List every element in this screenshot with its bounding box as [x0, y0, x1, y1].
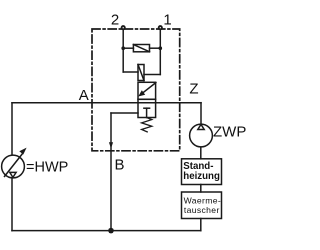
wire coil left lead from terminal 2 — [122, 28, 124, 72]
wire main A-Z horizontal line — [12, 102, 201, 104]
svg-text:2: 2 — [111, 12, 119, 29]
valve V1 lower square (blocked position with T) — [138, 99, 156, 117]
valve return spring — [142, 118, 152, 132]
pump HWP variable arrow — [5, 148, 27, 177]
wire coil bottom right segment — [144, 74, 160, 76]
svg-text:ZWP: ZWP — [213, 124, 246, 141]
svg-text:1: 1 — [163, 12, 171, 29]
svg-text:Z: Z — [189, 80, 198, 97]
wire Standheizung to Waermetauscher — [200, 185, 202, 193]
wire resistor branch left — [123, 47, 133, 49]
pump ZWP flow triangle — [198, 124, 204, 129]
wire Waermetauscher to bottom line — [200, 219, 202, 231]
svg-text:=HWP: =HWP — [26, 160, 68, 176]
svg-text:Waerme-: Waerme- — [184, 196, 221, 206]
terminal 1 — [159, 26, 162, 29]
pump HWP circle — [2, 155, 25, 178]
valve V1 upper square (flow position with arrow) — [138, 82, 156, 99]
wire B branch horizontal from valve — [111, 112, 138, 114]
junction node right of resistor — [159, 46, 163, 50]
wire resistor branch right — [150, 47, 161, 49]
junction node left of resistor — [121, 46, 125, 50]
pump ZWP circle — [190, 124, 213, 147]
resistor R (box with diagonal) — [133, 45, 149, 52]
svg-text:heizung: heizung — [183, 171, 220, 182]
wire Z vertical down to ZWP pump — [200, 103, 202, 125]
svg-text:A: A — [79, 87, 89, 104]
svg-text:tauscher: tauscher — [184, 205, 220, 215]
enclosure dash-dot boundary box — [92, 29, 180, 151]
terminal 2 — [122, 26, 125, 29]
wire coil bottom left segment — [123, 71, 138, 73]
pump HWP flow triangle — [10, 172, 16, 177]
heat exchanger box Waermetauscher — [182, 192, 222, 219]
junction node B on bottom line — [108, 228, 114, 234]
wire left vertical (HWP branch) — [11, 103, 13, 231]
wire coil right lead from terminal 1 — [159, 28, 161, 75]
svg-text:B: B — [114, 157, 124, 174]
wire ZWP pump to Standheizung box — [200, 147, 202, 159]
solenoid coil (box with diagonal) — [138, 65, 144, 81]
heater box Standheizung — [182, 159, 222, 185]
flow arrow on B line — [109, 142, 113, 148]
wire B vertical down to bottom line — [110, 113, 112, 231]
wire bottom return line — [12, 230, 201, 232]
